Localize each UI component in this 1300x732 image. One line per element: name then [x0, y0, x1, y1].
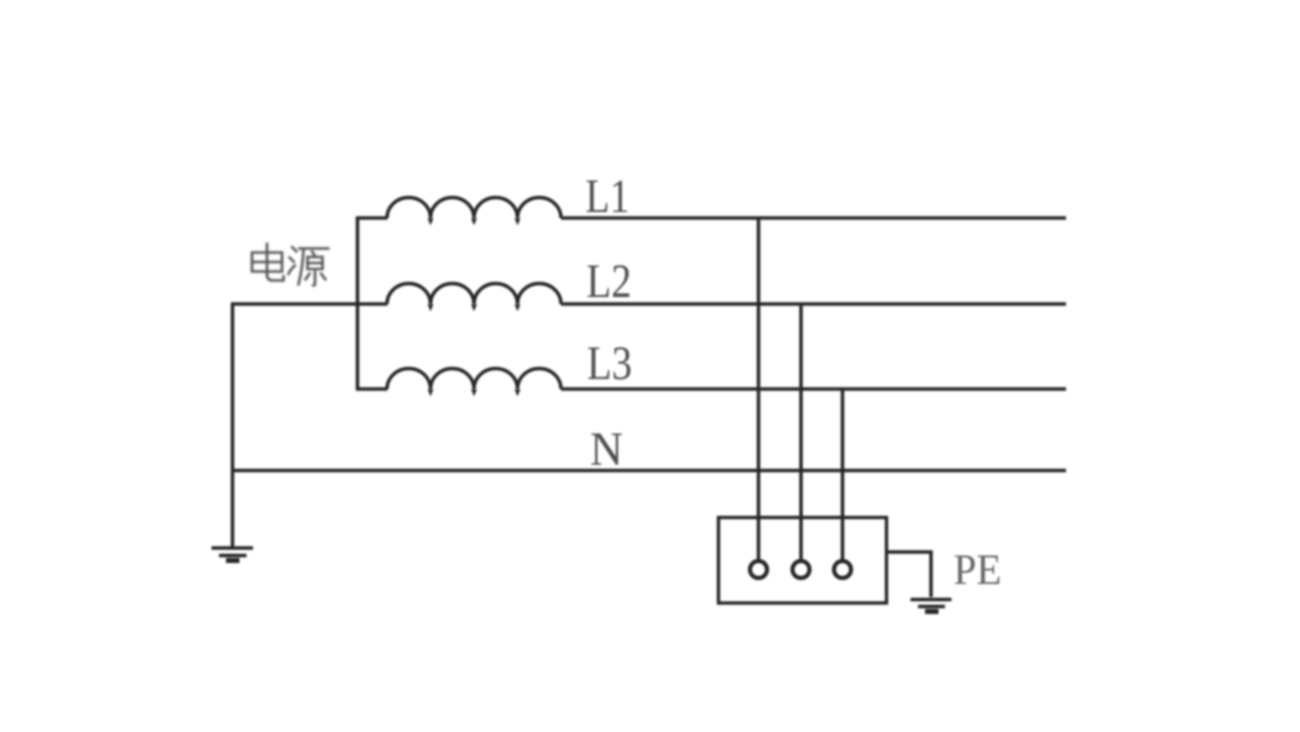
svg-text:L1: L1 [586, 170, 630, 223]
wire L1 line [561, 216, 1066, 220]
inductor winding L3 [387, 368, 561, 389]
wire N line [231, 469, 1066, 473]
svg-text:L2: L2 [587, 255, 632, 308]
ground PE (right earth symbol) [911, 600, 952, 612]
label 电源 (hand drawn glyphs) [252, 244, 329, 286]
wire: drop from L1 to socket [757, 218, 761, 561]
svg-text:N: N [590, 423, 623, 476]
wire: drop from L3 to socket [841, 389, 845, 561]
svg-text:L3: L3 [587, 337, 632, 390]
terminal circle 1 [750, 561, 767, 578]
wire L2 line [561, 302, 1066, 306]
ground (left earth symbol) [212, 548, 254, 561]
wire: 电源 feed (horizontal from left vertical to bus) [231, 302, 388, 306]
inductor winding L1 [387, 197, 561, 218]
wire L3 line [561, 387, 1066, 391]
wire PE (from box to earth) [887, 552, 932, 597]
terminal circle 2 [793, 561, 810, 578]
svg-text:PE: PE [954, 547, 1002, 594]
inductor winding L2 [387, 283, 561, 304]
电 [266, 244, 269, 276]
wire: vertical bus joining L1/L2/L3 windings [358, 218, 388, 389]
socket box [719, 518, 887, 604]
wire: left vertical down to earth [231, 303, 235, 548]
wire: drop from L2 to socket [799, 304, 803, 561]
terminal circle 3 [834, 561, 851, 578]
源 [292, 247, 297, 252]
